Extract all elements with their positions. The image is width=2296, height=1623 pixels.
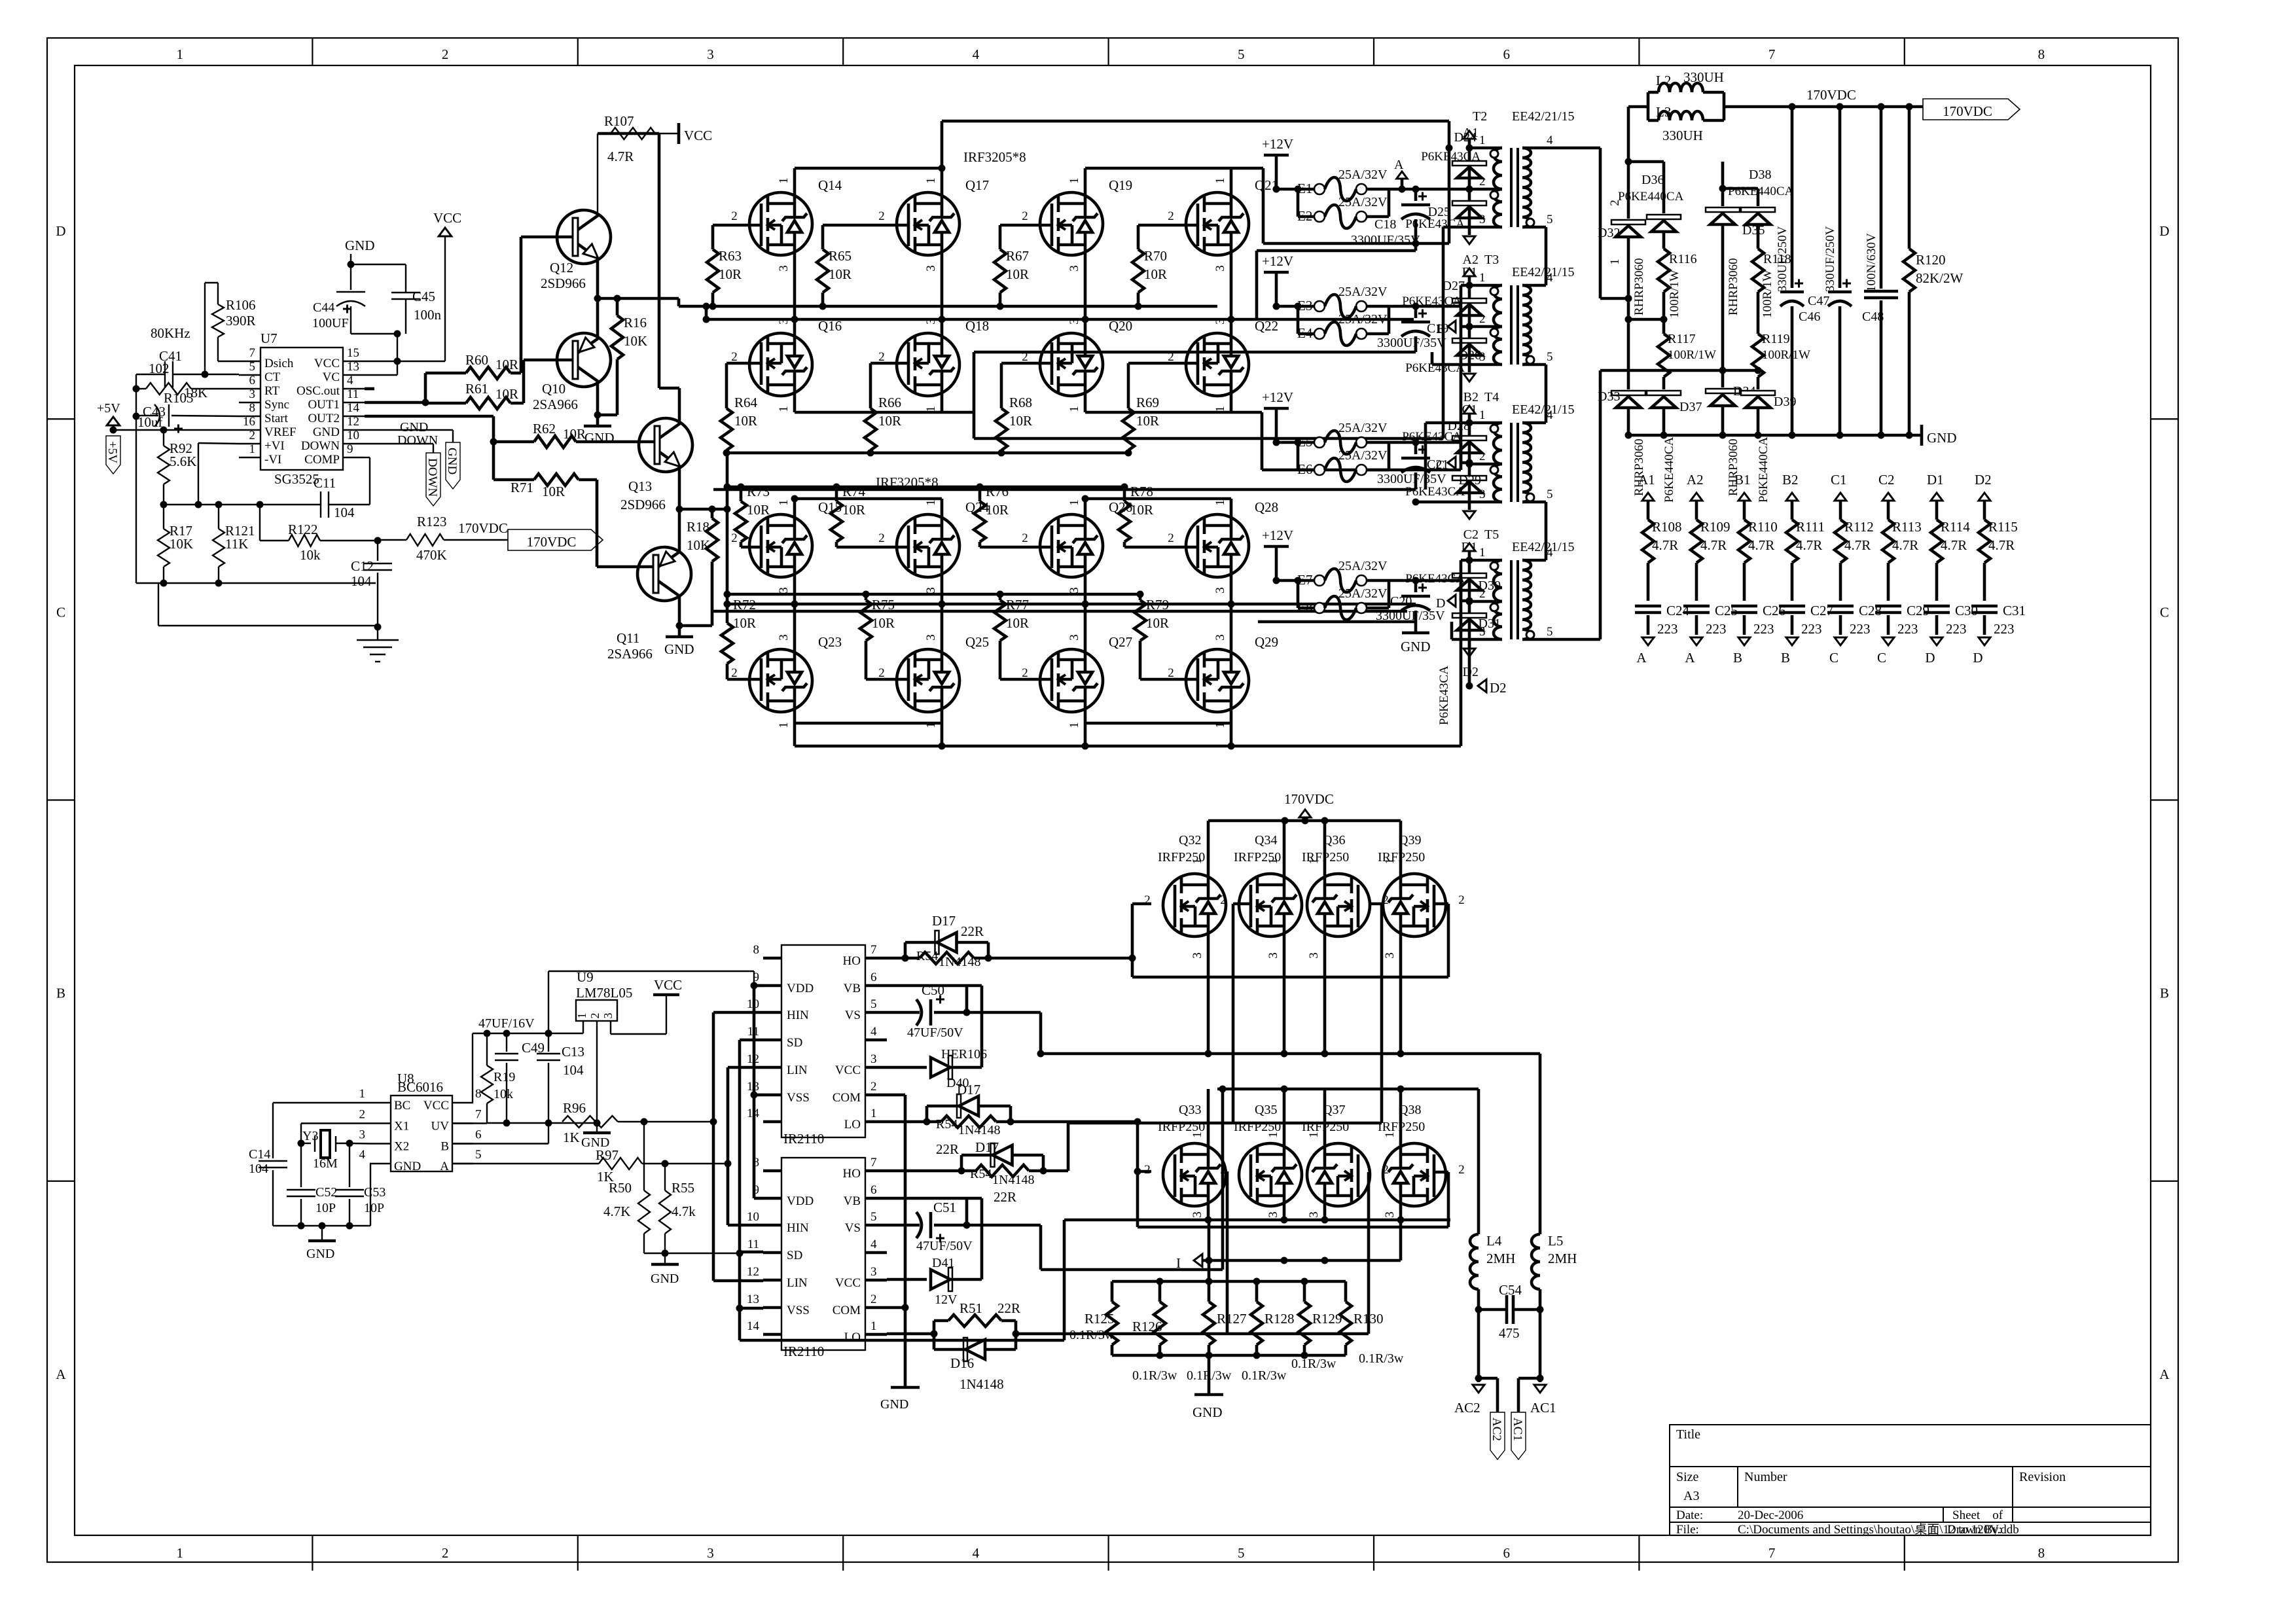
svg-text:10R: 10R <box>1009 413 1032 429</box>
svg-text:L2: L2 <box>1656 73 1671 88</box>
wire gnd rail y956 <box>158 625 378 626</box>
svg-text:D2: D2 <box>1490 680 1507 696</box>
svg-text:T3: T3 <box>1484 253 1499 267</box>
svg-text:2: 2 <box>870 1080 877 1094</box>
mosfet Q33 IRFP250 <box>1163 1143 1226 1206</box>
capacitor C45 100n <box>351 264 406 265</box>
svg-text:I: I <box>1176 1255 1181 1271</box>
power GND bar under Q10 <box>596 415 600 426</box>
svg-text:T4: T4 <box>1484 390 1499 404</box>
svg-text:8: 8 <box>249 401 256 415</box>
svg-text:EE42/21/15: EE42/21/15 <box>1512 402 1575 417</box>
svg-text:11K: 11K <box>225 536 248 552</box>
wire gnd rail under crystal <box>273 1225 370 1226</box>
power GND under U9 <box>596 1123 598 1133</box>
svg-text:C48: C48 <box>1862 310 1884 324</box>
svg-text:100R/1W: 100R/1W <box>1668 270 1681 318</box>
svg-text:3: 3 <box>707 46 714 62</box>
svg-text:10: 10 <box>747 1210 759 1224</box>
net arrow A2 <box>1468 227 1471 235</box>
svg-text:2: 2 <box>1022 531 1028 545</box>
svg-text:LM78L05: LM78L05 <box>576 985 632 1001</box>
svg-text:IRF3205*8: IRF3205*8 <box>963 149 1026 165</box>
svg-text:1: 1 <box>777 499 791 506</box>
diode D32 RHRP3060 <box>1627 107 1630 219</box>
svg-text:223: 223 <box>1706 621 1727 637</box>
svg-text:3300UF/35V: 3300UF/35V <box>1351 233 1420 247</box>
svg-text:4.7R: 4.7R <box>607 149 634 164</box>
svg-text:8: 8 <box>475 1087 482 1101</box>
svg-text:330UH: 330UH <box>1683 69 1724 85</box>
svg-text:3: 3 <box>1266 952 1280 959</box>
wire fuse outputs join group 4 <box>1367 579 1389 582</box>
wire source rail to sense <box>1063 1220 1066 1340</box>
wire source rail y488 <box>706 318 1414 321</box>
svg-text:GND: GND <box>1193 1404 1223 1420</box>
svg-text:1: 1 <box>1067 177 1081 184</box>
svg-text:File:: File: <box>1676 1523 1699 1537</box>
tvs diode D25 P6KE43CA <box>1468 189 1471 227</box>
wire T2 pin3 riser <box>1443 226 1469 229</box>
svg-text:D: D <box>1973 650 1982 666</box>
wire gate Q20 <box>1001 362 1052 365</box>
svg-text:100UF: 100UF <box>312 316 349 330</box>
svg-text:A: A <box>56 1366 66 1382</box>
wire VSS1 <box>754 1094 763 1097</box>
svg-text:D31: D31 <box>1479 616 1501 631</box>
svg-text:3: 3 <box>777 587 791 594</box>
svg-text:2MH: 2MH <box>1486 1251 1515 1266</box>
svg-text:1: 1 <box>924 499 938 506</box>
wire gate Q25 <box>866 678 908 681</box>
diode D17 1N4148 <box>991 1143 995 1167</box>
wire VCC rail to D40 <box>967 984 982 988</box>
svg-text:R65: R65 <box>829 248 852 264</box>
svg-text:AC1: AC1 <box>1530 1400 1556 1416</box>
svg-text:R16: R16 <box>624 315 647 330</box>
svg-text:GND: GND <box>445 448 459 474</box>
svg-text:D38: D38 <box>1749 168 1771 182</box>
wire row2 gate drive rail y692 <box>727 452 1128 455</box>
frame column dividers bottom <box>312 1535 313 1571</box>
resistor R112 4.7R <box>1835 520 1846 563</box>
svg-text:Size: Size <box>1676 1470 1699 1484</box>
svg-text:5: 5 <box>249 360 256 374</box>
svg-text:1: 1 <box>1479 546 1486 560</box>
svg-text:2SD966: 2SD966 <box>541 276 586 291</box>
resistor R19 10k <box>486 1033 488 1065</box>
wire Q37 source lead <box>1323 1206 1327 1220</box>
svg-text:1N4148: 1N4148 <box>958 1123 1000 1137</box>
svg-text:VCC: VCC <box>684 128 712 143</box>
wire VS2 to bridge <box>1039 1225 1043 1270</box>
svg-text:5: 5 <box>870 997 877 1011</box>
svg-text:6: 6 <box>870 971 877 984</box>
svg-text:4: 4 <box>359 1148 366 1162</box>
svg-text:10R: 10R <box>1144 266 1167 282</box>
net arrow I sense <box>1194 1254 1202 1267</box>
svg-text:HIN: HIN <box>787 1008 809 1022</box>
svg-text:R70: R70 <box>1144 248 1167 264</box>
svg-text:4: 4 <box>1547 546 1553 560</box>
resistor R72 10R <box>721 623 733 664</box>
svg-text:VDD: VDD <box>787 1194 814 1208</box>
svg-text:RT: RT <box>264 384 280 398</box>
svg-text:475: 475 <box>1499 1325 1520 1341</box>
svg-text:D32: D32 <box>1598 226 1620 240</box>
svg-text:C52: C52 <box>315 1185 337 1200</box>
svg-text:5.6K: 5.6K <box>170 454 196 469</box>
ic IR2110 U10 box <box>781 945 865 1137</box>
net arrow A down <box>1642 637 1654 645</box>
mosfet Q26 IRF3205 <box>1040 514 1103 577</box>
frame row dividers right <box>2151 418 2178 419</box>
svg-text:47UF/50V: 47UF/50V <box>916 1239 973 1253</box>
svg-text:C11: C11 <box>314 475 336 491</box>
svg-text:10R: 10R <box>1130 502 1153 518</box>
svg-text:VREF: VREF <box>264 425 296 439</box>
resistor R108 4.7R <box>1642 520 1654 563</box>
svg-text:2MH: 2MH <box>1548 1251 1577 1266</box>
svg-text:VB: VB <box>844 982 861 995</box>
svg-text:1: 1 <box>1067 722 1081 728</box>
svg-text:3: 3 <box>359 1128 366 1142</box>
svg-text:1N4148: 1N4148 <box>960 1376 1004 1392</box>
wire T4 pin1 riser <box>1426 421 1469 425</box>
wire Q38 drain lead <box>1399 1089 1403 1143</box>
ic IR2110 U11 box <box>781 1158 865 1350</box>
svg-text:R60: R60 <box>465 352 488 368</box>
svg-text:HIN: HIN <box>787 1221 809 1235</box>
svg-text:25A/32V: 25A/32V <box>1338 285 1388 299</box>
svg-text:3: 3 <box>1383 952 1397 959</box>
wire T5 pin1 riser <box>1461 559 1469 562</box>
svg-text:1: 1 <box>1266 1132 1280 1138</box>
resistor R73 10R <box>740 487 743 501</box>
svg-text:170VDC: 170VDC <box>1806 87 1856 103</box>
svg-text:5: 5 <box>1547 625 1553 639</box>
svg-text:3: 3 <box>249 387 256 401</box>
capacitor C24 223 <box>1635 605 1661 608</box>
svg-text:0.1R/3w: 0.1R/3w <box>1132 1368 1177 1383</box>
svg-text:R68: R68 <box>1009 395 1032 410</box>
svg-text:1: 1 <box>1307 1132 1321 1138</box>
svg-text:0.1R/3w: 0.1R/3w <box>1359 1351 1404 1366</box>
svg-text:3: 3 <box>1266 1211 1280 1218</box>
svg-text:R69: R69 <box>1136 395 1159 410</box>
capacitor C47 330UF/250V <box>1839 107 1842 288</box>
svg-text:5: 5 <box>1547 488 1553 501</box>
svg-text:7: 7 <box>1768 1545 1776 1561</box>
svg-text:25A/32V: 25A/32V <box>1338 448 1388 463</box>
net flag 170VDC <box>508 529 603 550</box>
resistor R79 10R <box>1139 594 1142 600</box>
svg-text:2SD966: 2SD966 <box>620 497 666 512</box>
wire Q11 collector to GND <box>678 596 681 626</box>
svg-text:CT: CT <box>264 370 281 384</box>
wire riser x2214 to T2 <box>1448 121 1451 243</box>
frame column dividers top <box>312 38 313 65</box>
wire T2.4 to rectifier <box>1546 147 1600 150</box>
svg-text:Drawn By:: Drawn By: <box>1947 1523 2002 1537</box>
mosfet Q36 IRFP250 <box>1307 874 1370 936</box>
wire U8 pin1 left <box>273 1102 370 1103</box>
svg-text:4.7K: 4.7K <box>603 1204 630 1219</box>
svg-text:Sync: Sync <box>264 398 289 412</box>
mosfet Q19 IRF3205 <box>1040 192 1103 255</box>
resistor R64 10R <box>725 363 728 408</box>
capacitor C12 104 <box>377 541 378 561</box>
svg-text:P6KE43CA: P6KE43CA <box>1402 294 1462 308</box>
svg-text:D1: D1 <box>1927 472 1944 488</box>
svg-text:2: 2 <box>1144 893 1151 907</box>
svg-text:3: 3 <box>601 1013 615 1019</box>
svg-text:1: 1 <box>1479 408 1486 422</box>
svg-text:4.7R: 4.7R <box>1941 537 1967 553</box>
svg-text:C44: C44 <box>313 300 334 315</box>
mosfet Q32 IRFP250 <box>1163 874 1226 936</box>
svg-text:P6KE440CA: P6KE440CA <box>1728 185 1794 198</box>
svg-text:Title: Title <box>1676 1427 1700 1442</box>
svg-text:R62: R62 <box>533 421 556 437</box>
tvs diode D29 P6KE43CA <box>1468 464 1471 502</box>
svg-text:P6KE440CA: P6KE440CA <box>1662 437 1676 503</box>
net arrow D2 <box>1468 639 1471 647</box>
wire row1 drain bus segment A <box>795 167 942 170</box>
svg-text:D24: D24 <box>1454 130 1477 145</box>
net arrow C down <box>1835 637 1846 645</box>
svg-text:11: 11 <box>747 1238 759 1251</box>
wire Q39 source lead <box>1399 936 1403 1054</box>
wire row3 source leads <box>793 577 797 604</box>
svg-text:4: 4 <box>1547 134 1553 147</box>
resistor R116 100R/1W <box>1658 249 1670 292</box>
svg-text:5: 5 <box>1238 46 1245 62</box>
svg-text:R116: R116 <box>1669 252 1697 266</box>
resistor R113 4.7R <box>1882 520 1894 563</box>
wire row3 drain bus segments <box>795 497 942 501</box>
net arrow B1 <box>1463 268 1475 276</box>
wire Dsich pin7 <box>218 361 239 362</box>
wire row4 source leads <box>793 604 797 649</box>
svg-text:223: 223 <box>1946 621 1967 637</box>
svg-text:C2: C2 <box>1878 472 1895 488</box>
svg-text:DOWN: DOWN <box>397 433 438 448</box>
wire gate Q23 <box>727 678 761 681</box>
resistor R50 4.7K <box>643 1122 645 1190</box>
diode D17 1N4148 <box>935 931 939 954</box>
svg-text:SG3525: SG3525 <box>274 471 319 487</box>
wire return group 1 <box>1257 249 1416 253</box>
wire bridge source rail3 <box>1064 1219 1450 1222</box>
resistor R130 0.1R/3w <box>1344 1281 1348 1302</box>
wire gate Q28 <box>1124 546 1198 549</box>
mosfet Q28 IRF3205 <box>1186 514 1249 577</box>
wire VC pin13 <box>365 374 397 376</box>
svg-text:R106: R106 <box>226 297 256 313</box>
svg-text:1: 1 <box>1307 858 1321 865</box>
svg-text:D16: D16 <box>950 1355 974 1371</box>
resistor R75 10R <box>865 594 868 600</box>
svg-text:R113: R113 <box>1892 519 1922 535</box>
net arrow C1 <box>1463 406 1475 414</box>
svg-text:R50: R50 <box>609 1180 632 1196</box>
svg-text:1: 1 <box>1383 858 1397 865</box>
resistor R77 10R <box>999 594 1002 600</box>
svg-text:82K/2W: 82K/2W <box>1916 270 1964 286</box>
wire secondary chain T2.5-T3.4 <box>1545 227 1548 285</box>
transformer T3 EE42/21/15 <box>1469 284 1502 287</box>
svg-text:2: 2 <box>1220 1163 1227 1177</box>
svg-text:5: 5 <box>475 1148 482 1162</box>
capacitor C49 <box>506 1033 507 1052</box>
svg-text:25A/32V: 25A/32V <box>1338 195 1388 209</box>
svg-text:GND: GND <box>345 238 375 253</box>
capacitor C27 223 <box>1779 605 1805 608</box>
svg-text:22R: 22R <box>997 1300 1020 1316</box>
svg-text:104: 104 <box>334 505 355 520</box>
wire bridge mid rail1 to L5 <box>1041 1052 1540 1056</box>
wire R71 to Q11 base <box>579 478 597 482</box>
svg-text:2: 2 <box>870 1293 877 1306</box>
svg-text:VCC: VCC <box>433 210 461 226</box>
svg-text:1: 1 <box>1213 499 1227 506</box>
svg-text:223: 223 <box>1994 621 2015 637</box>
wire bottom rail y891 <box>136 582 376 584</box>
svg-text:EE42/21/15: EE42/21/15 <box>1512 109 1575 124</box>
wire row4 drain leads <box>793 712 797 723</box>
ground earth below C12 <box>377 627 378 640</box>
tvs diode D26 P6KE43CA <box>1468 327 1471 365</box>
transformer T4 EE42/21/15 <box>1469 421 1502 425</box>
wire SD bus <box>740 1039 763 1042</box>
wire Q33 source lead <box>1207 1206 1210 1220</box>
diode D16 1N4148 <box>933 1334 936 1349</box>
svg-text:R120: R120 <box>1916 252 1946 268</box>
net arrow B2 <box>1468 365 1471 372</box>
wire R50 R55 bottom to SD <box>644 1253 665 1254</box>
svg-text:EE42/21/15: EE42/21/15 <box>1512 265 1575 279</box>
svg-text:R96: R96 <box>563 1100 586 1116</box>
net arrow D2 extra <box>1468 639 1471 686</box>
wire gate Q26 <box>980 546 1052 549</box>
svg-text:3: 3 <box>707 1545 714 1561</box>
svg-text:BC: BC <box>394 1099 410 1113</box>
mosfet Q34 IRFP250 <box>1239 874 1302 936</box>
resistor R110 4.7R <box>1738 520 1750 563</box>
svg-text:D30: D30 <box>1479 579 1501 593</box>
svg-text:2: 2 <box>359 1108 366 1122</box>
svg-text:GND: GND <box>306 1247 334 1261</box>
resistor R117 100R/1W <box>1658 334 1670 377</box>
net arrow D down <box>1931 637 1943 645</box>
svg-text:+5V: +5V <box>105 441 119 463</box>
svg-text:OUT2: OUT2 <box>308 412 340 425</box>
capacitor C28 223 <box>1827 605 1854 608</box>
svg-text:1: 1 <box>1479 134 1486 147</box>
svg-text:+VI: +VI <box>264 439 285 453</box>
U7 pin stubs and numbers <box>239 361 260 362</box>
svg-text:13: 13 <box>347 360 359 374</box>
svg-text:4.7R: 4.7R <box>1700 537 1727 553</box>
svg-text:223: 223 <box>1897 621 1918 637</box>
wire UV row / gnd rail 1716 <box>452 1122 487 1124</box>
svg-text:4.7R: 4.7R <box>1988 537 2015 553</box>
svg-text:10R: 10R <box>733 615 756 631</box>
capacitor C21 3300UF/35V <box>1414 442 1418 454</box>
svg-text:R117: R117 <box>1668 332 1696 346</box>
svg-text:L3: L3 <box>1656 104 1671 120</box>
svg-text:R130: R130 <box>1354 1311 1384 1327</box>
svg-text:10R: 10R <box>495 357 518 372</box>
svg-text:390R: 390R <box>226 313 256 329</box>
tvs diode D27 P6KE43CA <box>1468 285 1471 327</box>
svg-text:AC2: AC2 <box>1454 1400 1480 1416</box>
svg-text:2: 2 <box>878 209 885 223</box>
svg-text:6: 6 <box>870 1183 877 1197</box>
capacitor C29 223 <box>1875 605 1901 608</box>
wire R106 top loop <box>205 282 218 283</box>
svg-text:10R: 10R <box>1136 413 1159 429</box>
resistor R16 10K <box>598 297 679 300</box>
svg-text:P6KE440CA: P6KE440CA <box>1757 437 1770 503</box>
wire gate Q16 <box>726 362 761 365</box>
svg-text:2: 2 <box>442 1545 449 1561</box>
wire bridge top rail 170VDC <box>1208 819 1401 823</box>
svg-text:3: 3 <box>1213 634 1227 641</box>
svg-text:R64: R64 <box>734 395 758 410</box>
svg-text:1: 1 <box>777 406 791 412</box>
svg-text:2: 2 <box>1458 1163 1465 1177</box>
wire row1 drain bus segment B <box>1085 167 1263 170</box>
tvs diode D28 P6KE43CA <box>1468 423 1471 464</box>
wire VCC pin15 <box>365 361 445 362</box>
transistor Q11 2SA966 <box>637 547 691 601</box>
svg-text:C14: C14 <box>249 1147 270 1162</box>
svg-text:X2: X2 <box>394 1140 409 1154</box>
svg-text:4.7R: 4.7R <box>1892 537 1918 553</box>
wire driver output to lower gate rails <box>712 508 727 511</box>
svg-text:Q17: Q17 <box>965 177 989 193</box>
wire U8 pin4 GND row <box>370 1163 370 1164</box>
svg-text:Q11: Q11 <box>617 630 639 646</box>
svg-text:10R: 10R <box>563 426 586 442</box>
svg-text:1: 1 <box>870 1319 877 1333</box>
svg-text:R107: R107 <box>604 113 634 129</box>
svg-text:DOWN: DOWN <box>301 439 340 453</box>
wire HO2 <box>887 1169 961 1173</box>
svg-text:UV: UV <box>431 1120 450 1133</box>
resistor R67 10R <box>999 225 1002 249</box>
wire Q35 source lead <box>1283 1206 1286 1220</box>
wire U8 pin2 to crystal <box>301 1122 370 1124</box>
svg-text:R119: R119 <box>1762 332 1790 346</box>
wire gate Q22 <box>1128 362 1198 365</box>
power GND crystal <box>321 1226 323 1241</box>
svg-text:10k: 10k <box>300 547 321 563</box>
wire Q34 drain lead <box>1283 821 1286 874</box>
mosfet Q14 IRF3205 <box>749 192 812 255</box>
svg-text:R115: R115 <box>1988 519 2018 535</box>
wire Q34 source lead <box>1283 936 1286 1054</box>
diode D33 RHRP3060 <box>1611 391 1645 395</box>
svg-text:A: A <box>1636 650 1647 666</box>
wire riser pair B down to return line <box>1262 168 1265 243</box>
svg-text:R63: R63 <box>719 248 742 264</box>
svg-text:22R: 22R <box>936 1141 959 1157</box>
wire T4 pin3 riser <box>1416 501 1469 504</box>
wire gate Q21 <box>1138 224 1198 227</box>
